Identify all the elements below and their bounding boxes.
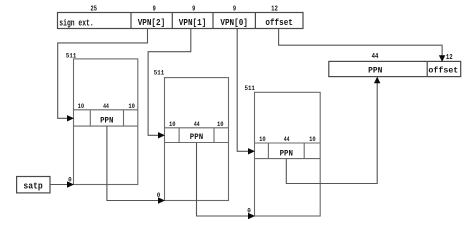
arrowhead VPN[2] into table 1 xyxy=(67,115,74,121)
svg-text:0: 0 xyxy=(157,192,161,199)
svg-text:10: 10 xyxy=(259,136,266,143)
page table 2 box xyxy=(165,78,229,201)
svg-text:satp: satp xyxy=(23,181,43,192)
virtual address field divider VPN2/VPN1 xyxy=(171,13,173,29)
svg-text:10: 10 xyxy=(217,121,224,128)
page table 1 PTE row xyxy=(74,109,138,111)
arrowhead table 2 PPN into table 3 base xyxy=(248,213,255,219)
arrowhead satp into table 1 base xyxy=(67,181,74,187)
svg-text:0: 0 xyxy=(68,176,72,183)
svg-text:PPN: PPN xyxy=(190,132,203,142)
svg-text:12: 12 xyxy=(271,5,278,13)
svg-text:44: 44 xyxy=(103,103,109,110)
virtual address field divider VPN0/offset xyxy=(254,13,256,29)
svg-text:offset: offset xyxy=(265,17,293,28)
svg-text:44: 44 xyxy=(372,53,379,61)
svg-text:511: 511 xyxy=(66,53,76,60)
svg-text:PPN: PPN xyxy=(100,115,113,125)
wire VPN[1] to table 2 PTE xyxy=(148,29,191,136)
svg-text:PPN: PPN xyxy=(368,66,382,76)
svg-text:9: 9 xyxy=(153,5,156,13)
svg-text:10: 10 xyxy=(309,136,316,143)
svg-text:9: 9 xyxy=(233,5,236,13)
page table 3 box xyxy=(255,92,321,216)
physical address box xyxy=(329,61,461,76)
svg-text:25: 25 xyxy=(91,5,97,13)
svg-text:10: 10 xyxy=(169,121,176,128)
svg-text:offset: offset xyxy=(428,66,458,76)
virtual address field divider sign/VPN2 xyxy=(130,13,132,29)
page table 2 PTE row xyxy=(165,127,229,129)
arrowhead VPN[0] into table 3 xyxy=(248,148,255,154)
wire table 3 PPN to physical PPN xyxy=(286,82,377,184)
svg-text:12: 12 xyxy=(446,54,453,62)
wire offset to physical offset xyxy=(279,29,443,57)
svg-text:VPN[2]: VPN[2] xyxy=(138,17,166,28)
arrowhead VPN[1] into table 2 xyxy=(158,132,165,138)
svg-text:PPN: PPN xyxy=(280,148,293,158)
wire VPN[0] to table 3 PTE xyxy=(237,29,250,152)
svg-text:VPN[0]: VPN[0] xyxy=(220,17,248,28)
svg-text:10: 10 xyxy=(128,103,135,110)
physical address field divider PPN/offset xyxy=(426,61,428,76)
arrowhead offset down into physical offset xyxy=(439,55,445,62)
svg-text:0: 0 xyxy=(247,208,251,215)
svg-text:511: 511 xyxy=(245,85,255,92)
svg-text:44: 44 xyxy=(284,136,290,143)
wire table 1 PPN to table 2 base xyxy=(107,126,160,200)
wire table 2 PPN to table 3 base xyxy=(197,143,250,217)
arrowhead table 3 PPN up into physical PPN xyxy=(374,77,380,84)
svg-text:9: 9 xyxy=(192,5,195,13)
page table 3 PTE row xyxy=(255,142,321,144)
svg-text:10: 10 xyxy=(78,103,85,110)
satp box xyxy=(17,177,50,193)
svg-text:sign ext.: sign ext. xyxy=(59,17,93,28)
svg-text:44: 44 xyxy=(194,121,200,128)
svg-text:511: 511 xyxy=(154,70,164,77)
wire satp to table 1 base xyxy=(50,184,69,186)
svg-text:VPN[1]: VPN[1] xyxy=(179,17,207,28)
arrowhead table 1 PPN into table 2 base xyxy=(158,197,165,203)
virtual address box xyxy=(58,13,304,29)
page table 1 box xyxy=(74,59,138,185)
virtual address field divider VPN1/VPN0 xyxy=(212,13,214,29)
wire VPN[2] to table 1 PTE xyxy=(58,29,148,119)
